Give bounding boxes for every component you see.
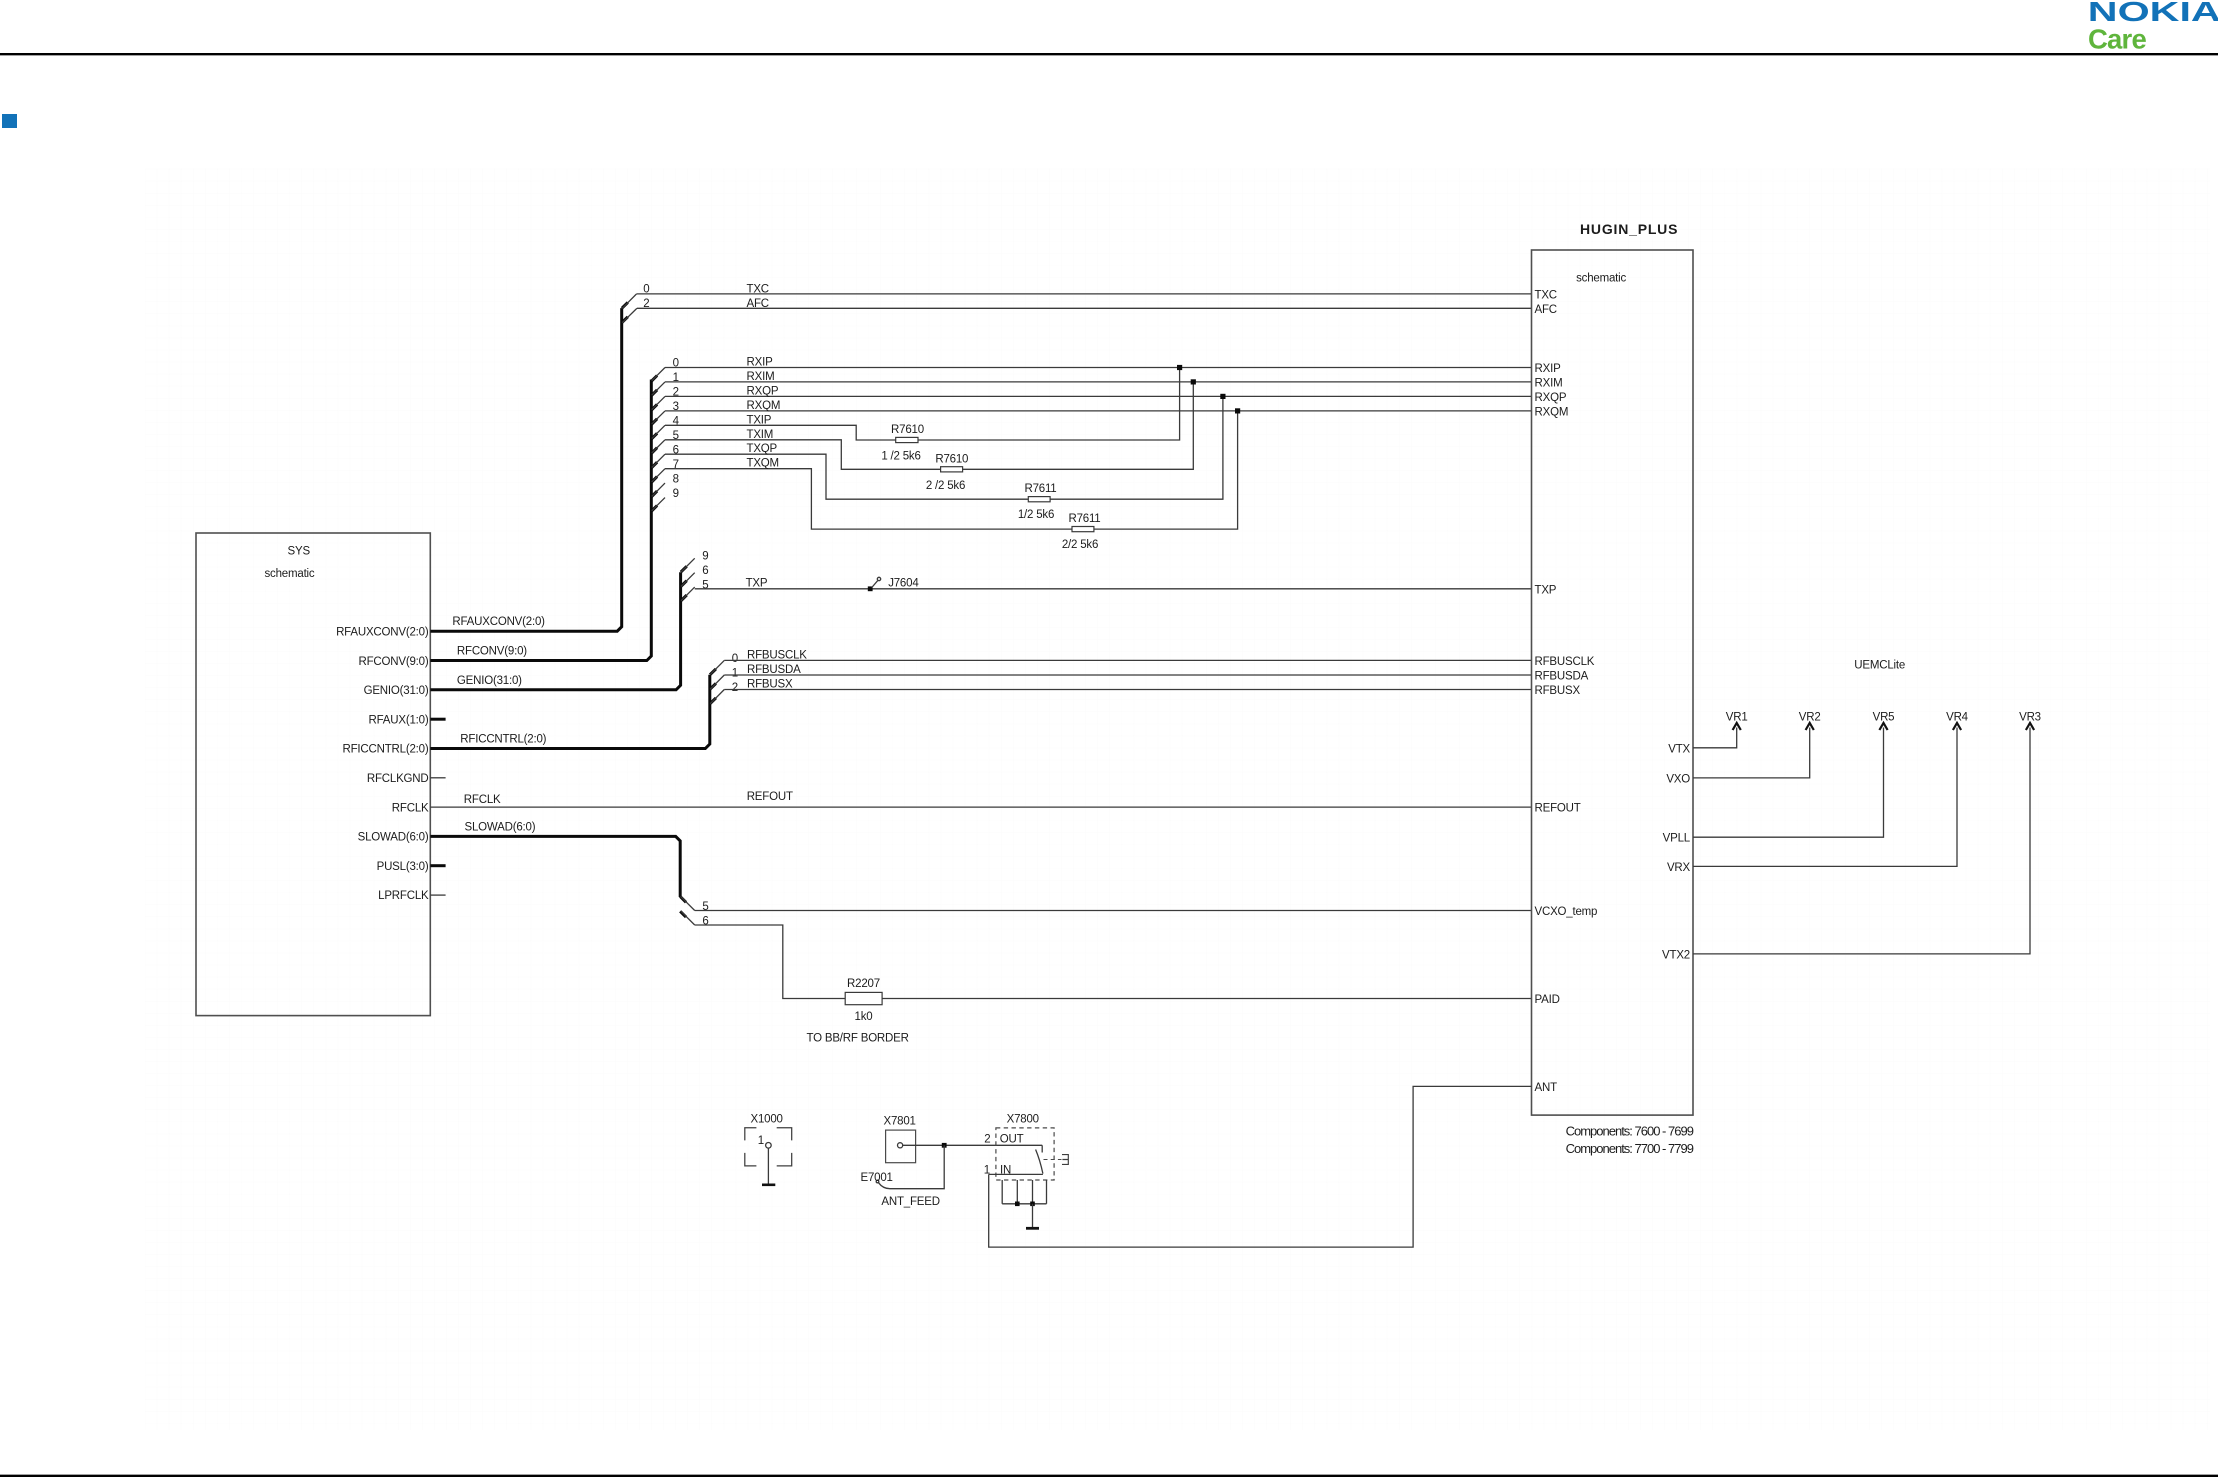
svg-text:schematic: schematic — [265, 568, 315, 580]
wire SLOWAD6 to R2207 — [695, 925, 846, 999]
svg-text:OUT: OUT — [1000, 1134, 1024, 1146]
svg-text:AFC: AFC — [747, 298, 769, 310]
svg-text:RFBUSX: RFBUSX — [1535, 685, 1581, 697]
svg-text:X7801: X7801 — [884, 1116, 916, 1128]
bus exit tick bit4 — [651, 433, 657, 439]
svg-text:Components: 7700 - 7799: Components: 7700 - 7799 — [1566, 1141, 1694, 1156]
svg-text:R7610: R7610 — [891, 424, 924, 436]
wire AFC — [637, 307, 1532, 309]
X7800 bottom bar — [1002, 1203, 1046, 1205]
X7800 ground stem — [1032, 1204, 1034, 1228]
svg-text:RXQM: RXQM — [1535, 406, 1569, 418]
bus exit diagonal bit4 — [652, 425, 665, 438]
svg-text:6: 6 — [702, 565, 708, 577]
bus exit tick bit2 — [622, 317, 628, 323]
wire RFBUSX — [724, 689, 1531, 691]
svg-text:UEMCLite: UEMCLite — [1854, 660, 1905, 672]
svg-text:SLOWAD(6:0): SLOWAD(6:0) — [465, 821, 536, 833]
svg-text:VR3: VR3 — [2019, 711, 2041, 723]
bus exit diagonal bit7 — [652, 469, 665, 482]
bus exit diagonal bit5 — [681, 896, 695, 910]
wire RXQP — [665, 395, 1532, 397]
X7800 bottom pin a — [1001, 1180, 1003, 1204]
switch X7800 outline — [996, 1128, 1054, 1180]
svg-text:TXQM: TXQM — [747, 458, 779, 470]
X1000 pin circle — [766, 1143, 772, 1149]
svg-text:VTX: VTX — [1668, 743, 1690, 755]
svg-text:VR2: VR2 — [1799, 711, 1821, 723]
svg-text:2: 2 — [984, 1133, 990, 1145]
wire TXIP — [665, 425, 896, 440]
wire VTX2 to VR3 — [1693, 728, 2030, 954]
svg-text:TXIP: TXIP — [747, 414, 772, 426]
power arrow VR4 — [1953, 723, 1961, 730]
SYS block outline — [196, 533, 430, 1016]
wire VPLL to VR5 — [1693, 728, 1884, 838]
junction ANT_FEED node — [942, 1143, 947, 1148]
wire RXQM — [665, 410, 1532, 412]
bus exit tick bit5 — [680, 897, 686, 903]
svg-text:RFCONV(9:0): RFCONV(9:0) — [358, 656, 428, 668]
bus exit diagonal bit5 — [652, 440, 665, 453]
wire VTX to VR1 — [1693, 728, 1737, 748]
svg-text:TXP: TXP — [746, 578, 768, 590]
svg-text:REFOUT: REFOUT — [1535, 803, 1581, 815]
SYS pin stub RFCLKGND — [430, 777, 445, 779]
svg-text:VRX: VRX — [1667, 862, 1691, 874]
svg-text:2/2 5k6: 2/2 5k6 — [1062, 539, 1098, 551]
SYS pin stub LPRFCLK — [430, 894, 445, 896]
bus exit diagonal bit5 — [681, 587, 695, 601]
svg-text:VR1: VR1 — [1726, 711, 1748, 723]
testpoint J7604 lead — [872, 581, 878, 588]
wire TXC — [637, 293, 1532, 295]
bus exit tick bit3 — [651, 419, 657, 425]
svg-text:1: 1 — [758, 1135, 764, 1147]
svg-text:Components: 7600 - 7699: Components: 7600 - 7699 — [1566, 1123, 1694, 1138]
svg-text:VXO: VXO — [1666, 773, 1690, 785]
svg-text:2 /2 5k6: 2 /2 5k6 — [926, 480, 965, 492]
power arrow VR3 — [2026, 723, 2034, 730]
wire RXIP — [665, 367, 1532, 369]
bus exit tick bit0 — [651, 376, 657, 382]
bus exit tick bit6 — [681, 581, 687, 587]
HUGIN_PLUS block outline — [1532, 250, 1694, 1115]
svg-text:1k0: 1k0 — [855, 1011, 873, 1023]
svg-text:HUGIN_PLUS: HUGIN_PLUS — [1580, 221, 1678, 237]
wire RFBUSCLK — [724, 659, 1531, 661]
svg-text:5: 5 — [702, 579, 708, 591]
svg-text:TXC: TXC — [747, 284, 769, 296]
svg-text:ANT: ANT — [1535, 1082, 1558, 1094]
svg-text:RFCLKGND: RFCLKGND — [367, 773, 429, 785]
power arrow VR1 — [1733, 723, 1741, 730]
bus RFCONV(9:0) — [430, 380, 651, 661]
svg-text:RFCLK: RFCLK — [464, 794, 501, 806]
svg-text:GENIO(31:0): GENIO(31:0) — [364, 685, 429, 697]
svg-text:AFC: AFC — [1535, 304, 1557, 316]
wire R7610-1 to RXIP — [918, 368, 1180, 441]
svg-text:5: 5 — [702, 901, 708, 913]
wire VCXO_temp — [695, 910, 1532, 912]
power arrow VR2 — [1806, 723, 1814, 730]
svg-text:VPLL: VPLL — [1663, 833, 1691, 845]
X7800 bottom pin c — [1032, 1180, 1034, 1204]
svg-text:RFAUXCONV(2:0): RFAUXCONV(2:0) — [452, 616, 545, 628]
svg-text:TXC: TXC — [1535, 289, 1557, 301]
svg-text:RXIP: RXIP — [1535, 363, 1562, 375]
X7800 ground bar — [1026, 1227, 1039, 1230]
svg-text:1: 1 — [732, 668, 738, 680]
svg-text:RXIM: RXIM — [1535, 377, 1563, 389]
bus exit tick bit7 — [651, 477, 657, 483]
X7800 switch lever — [1036, 1150, 1043, 1174]
bus exit tick bit1 — [651, 390, 657, 396]
svg-text:REFOUT: REFOUT — [747, 791, 793, 803]
svg-text:X1000: X1000 — [751, 1113, 783, 1125]
bus exit tick bit6 — [680, 911, 686, 917]
svg-text:RFAUXCONV(2:0): RFAUXCONV(2:0) — [336, 627, 429, 639]
bus exit tick bit0 — [622, 302, 628, 308]
svg-text:RXQM: RXQM — [747, 400, 781, 412]
svg-text:R7610: R7610 — [935, 454, 968, 466]
svg-text:9: 9 — [673, 488, 679, 500]
X7800 actuator bracket — [1062, 1155, 1068, 1165]
svg-text:RFBUSDA: RFBUSDA — [1535, 671, 1589, 683]
bus exit stub bit9 — [652, 498, 665, 511]
svg-text:R2207: R2207 — [847, 978, 880, 990]
svg-text:RFICCNTRL(2:0): RFICCNTRL(2:0) — [342, 744, 428, 756]
wire TXQP — [665, 454, 1028, 499]
bus GENIO(31:0) — [430, 572, 680, 690]
bus exit diagonal bit0 — [652, 368, 665, 381]
svg-text:LPRFCLK: LPRFCLK — [378, 890, 429, 902]
wire RFCLK to REFOUT — [430, 806, 1531, 808]
svg-text:RXIM: RXIM — [747, 371, 775, 383]
bus exit tick bit5 — [681, 595, 687, 601]
svg-text:RFCLK: RFCLK — [392, 802, 429, 814]
power arrow VR5 — [1879, 723, 1887, 730]
svg-text:RXQP: RXQP — [1535, 392, 1567, 404]
bus exit diagonal bit0 — [710, 660, 724, 674]
bus SLOWAD(6:0) — [430, 836, 680, 897]
svg-text:PUSL(3:0): PUSL(3:0) — [377, 861, 429, 873]
wire ANT net — [989, 1086, 1532, 1247]
svg-text:RFBUSCLK: RFBUSCLK — [1535, 656, 1595, 668]
svg-text:TXP: TXP — [1535, 584, 1557, 596]
resistor R7610 2/2 — [941, 467, 963, 472]
bus exit tick bit9 — [651, 506, 657, 512]
bus exit diagonal bit2 — [652, 396, 665, 409]
svg-text:E7001: E7001 — [861, 1172, 893, 1184]
svg-text:R7611: R7611 — [1068, 513, 1100, 525]
svg-text:RXQP: RXQP — [747, 385, 779, 397]
bus exit diagonal bit1 — [652, 382, 665, 395]
bus exit diagonal bit2 — [622, 308, 637, 322]
wire TXIM — [665, 440, 941, 470]
svg-text:TO BB/RF BORDER: TO BB/RF BORDER — [807, 1033, 909, 1045]
svg-text:RXIP: RXIP — [747, 357, 774, 369]
bus exit stub bit8 — [652, 483, 665, 496]
blue square bullet — [2, 114, 17, 128]
connector X7801 outline — [886, 1130, 916, 1163]
testpoint E7001 ring — [876, 1180, 879, 1183]
svg-text:TXQP: TXQP — [747, 443, 778, 455]
svg-text:TXIM: TXIM — [747, 429, 774, 441]
resistor R7611 2/2 — [1072, 527, 1094, 532]
svg-text:0: 0 — [732, 653, 738, 665]
bus exit stub bit6 — [681, 573, 695, 587]
connector X1000 outline — [745, 1128, 792, 1166]
wire RFBUSDA — [724, 674, 1531, 676]
junction bottom bar b — [1015, 1202, 1020, 1207]
svg-text:RFBUSDA: RFBUSDA — [747, 664, 801, 676]
svg-text:Care: Care — [2088, 24, 2146, 55]
svg-text:VR4: VR4 — [1946, 711, 1969, 723]
svg-text:VCXO_temp: VCXO_temp — [1535, 906, 1598, 918]
svg-text:2: 2 — [732, 682, 738, 694]
bus RFAUXCONV(2:0) — [430, 308, 621, 631]
bus exit tick bit6 — [651, 462, 657, 468]
svg-text:RFBUSCLK: RFBUSCLK — [747, 649, 807, 661]
bus RFICCNTRL(2:0) — [430, 675, 710, 749]
junction on RXIM — [1191, 379, 1196, 384]
junction on RXQP — [1220, 394, 1225, 399]
wire junction to E7001 — [879, 1145, 945, 1188]
bus exit tick bit2 — [651, 404, 657, 410]
X7800 actuator link — [1044, 1159, 1062, 1161]
svg-text:RFAUX(1:0): RFAUX(1:0) — [369, 714, 429, 726]
svg-text:RFICCNTRL(2:0): RFICCNTRL(2:0) — [460, 733, 546, 745]
footer bottom rule — [0, 1475, 2218, 1477]
bus exit stub bit9 — [681, 558, 695, 572]
X7800 IN wire — [989, 1173, 1043, 1175]
wire R2207 to PAID — [882, 998, 1531, 1000]
svg-text:schematic: schematic — [1576, 273, 1626, 285]
wire TXP — [695, 588, 1532, 590]
bus exit tick bit9 — [681, 566, 687, 572]
bus exit diagonal bit6 — [681, 911, 695, 925]
X7800 bottom pin d — [1046, 1180, 1048, 1204]
svg-text:9: 9 — [702, 551, 708, 563]
wire TXQM — [665, 469, 1072, 529]
junction bottom bar c — [1030, 1202, 1035, 1207]
svg-text:SLOWAD(6:0): SLOWAD(6:0) — [358, 832, 429, 844]
svg-text:J7604: J7604 — [888, 578, 919, 590]
svg-text:1/2 5k6: 1/2 5k6 — [1018, 509, 1054, 521]
svg-text:VR5: VR5 — [1873, 711, 1895, 723]
bus exit diagonal bit0 — [622, 294, 636, 308]
svg-text:8: 8 — [673, 473, 679, 485]
X7801 pin circle — [898, 1143, 903, 1148]
wire VXO to VR2 — [1693, 728, 1810, 778]
header top rule — [0, 53, 2218, 55]
X1000 ground stem — [767, 1148, 769, 1184]
svg-text:6: 6 — [702, 916, 708, 928]
svg-text:X7800: X7800 — [1007, 1113, 1039, 1125]
SYS pin stub RFAUX(1:0) — [430, 718, 445, 721]
X7800 bottom pin b — [1016, 1180, 1018, 1204]
junction on RXQM — [1235, 408, 1240, 413]
svg-text:GENIO(31:0): GENIO(31:0) — [457, 675, 522, 687]
wire R7610-2 to RXIM — [963, 382, 1194, 469]
bus exit tick bit1 — [710, 683, 716, 689]
bus exit tick bit5 — [651, 448, 657, 454]
svg-text:PAID: PAID — [1535, 994, 1560, 1006]
svg-text:SYS: SYS — [288, 546, 311, 558]
wire VRX to VR4 — [1693, 728, 1957, 867]
wire X7801 to X7800 OUT — [903, 1144, 1042, 1146]
X1000 ground bar — [762, 1184, 775, 1187]
X7800 OUT contact — [1041, 1145, 1043, 1152]
svg-text:1 /2 5k6: 1 /2 5k6 — [881, 451, 920, 463]
svg-text:R7611: R7611 — [1024, 483, 1056, 495]
bus exit diagonal bit2 — [710, 690, 724, 704]
resistor R7610 1/2 — [896, 437, 918, 442]
resistor R2207 — [845, 992, 882, 1004]
bus exit tick bit0 — [710, 669, 716, 675]
wire R7611-2 to RXQM — [1094, 411, 1238, 529]
bus exit tick bit8 — [651, 491, 657, 497]
testpoint J7604 ring — [877, 577, 880, 580]
bus exit diagonal bit3 — [652, 411, 665, 424]
junction on RXIP — [1177, 365, 1182, 370]
resistor R7611 1/2 — [1028, 497, 1050, 502]
wire R7611-1 to RXQP — [1050, 396, 1223, 499]
svg-text:VTX2: VTX2 — [1662, 949, 1690, 961]
bus exit tick bit2 — [710, 698, 716, 704]
svg-text:RFCONV(9:0): RFCONV(9:0) — [457, 646, 527, 658]
SYS pin stub PUSL(3:0) — [430, 864, 445, 867]
testpoint J7604 pad — [868, 586, 873, 591]
bus exit diagonal bit6 — [652, 454, 665, 467]
svg-text:ANT_FEED: ANT_FEED — [881, 1196, 939, 1208]
svg-text:RFBUSX: RFBUSX — [747, 679, 793, 691]
wire RXIM — [665, 381, 1532, 383]
bus exit diagonal bit1 — [710, 675, 724, 689]
